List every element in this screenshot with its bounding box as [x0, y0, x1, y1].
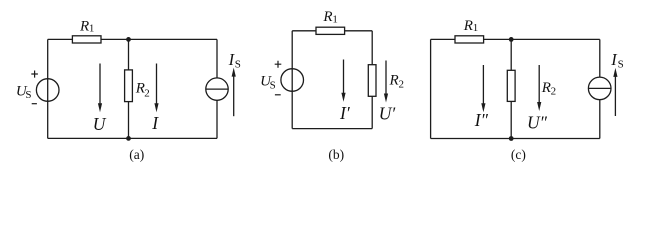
svg-text:1: 1 — [332, 13, 338, 25]
voltage source US (a) — [36, 79, 59, 102]
wire (b) top right segment — [345, 30, 373, 32]
wire (a) right branch upper — [216, 39, 218, 78]
current source IS (a) — [206, 78, 228, 100]
arrow I' (b) — [343, 60, 345, 94]
arrowhead IS (c) — [613, 68, 617, 77]
arrow IS (a) — [233, 76, 235, 116]
arrowhead I' (b) — [341, 93, 345, 102]
wire (a) middle branch lower — [128, 102, 130, 139]
wire (a) left branch — [47, 39, 49, 138]
junction node (a) top — [126, 37, 131, 42]
arrowhead U' (b) — [384, 94, 388, 103]
minus sign of US (a) — [32, 103, 37, 105]
arrow I (a) — [156, 64, 158, 105]
svg-text:S: S — [235, 59, 241, 71]
svg-text:1: 1 — [473, 22, 479, 34]
voltage source US (b) — [281, 69, 304, 92]
arrowhead I'' (c) — [481, 103, 485, 112]
arrow I'' (c) — [482, 65, 484, 105]
svg-text:S: S — [270, 80, 276, 92]
wire (a) middle branch upper — [128, 39, 130, 70]
wire (a) right branch lower — [216, 100, 218, 138]
svg-text:I: I — [151, 113, 159, 133]
junction node (c) top — [509, 37, 514, 42]
svg-text:S: S — [618, 58, 624, 70]
plus sign of US (b) — [275, 61, 282, 68]
svg-text:2: 2 — [399, 79, 405, 91]
svg-text:U′: U′ — [379, 103, 397, 123]
svg-text:(b): (b) — [328, 147, 344, 162]
wire (c) right branch lower — [599, 100, 601, 139]
junction node (c) bottom — [509, 136, 514, 141]
resistor R1 (b) — [316, 27, 345, 34]
svg-text:R: R — [463, 18, 473, 34]
wire (c) bottom — [431, 138, 600, 140]
resistor R2 (a) — [125, 70, 133, 102]
wire (c) middle branch upper — [510, 39, 512, 70]
minus sign of US (b) — [275, 94, 281, 96]
wire (a) top right segment — [101, 38, 217, 40]
junction node (a) bottom — [126, 136, 131, 141]
svg-text:2: 2 — [144, 87, 150, 99]
wire (c) top left segment — [431, 38, 455, 40]
arrowhead U (a) — [98, 103, 102, 112]
svg-text:I″: I″ — [474, 110, 489, 130]
svg-text:I′: I′ — [339, 103, 351, 123]
wire (a) bottom — [48, 137, 217, 139]
wire (b) right branch lower — [371, 96, 373, 128]
svg-text:R: R — [322, 9, 332, 25]
svg-text:(a): (a) — [129, 147, 144, 162]
arrow U' (b) — [385, 61, 387, 95]
resistor R1 (c) — [455, 36, 484, 43]
wire (b) bottom — [292, 128, 372, 130]
resistor R2 (b) — [368, 65, 376, 97]
svg-text:R: R — [389, 73, 399, 89]
wire (b) top left segment — [292, 30, 316, 32]
wire (c) right branch upper — [599, 39, 601, 77]
svg-text:1: 1 — [89, 23, 95, 35]
svg-text:U″: U″ — [527, 113, 548, 133]
current source IS (c) — [588, 77, 611, 100]
wire (c) top right segment — [484, 38, 600, 40]
arrowhead IS (a) — [232, 68, 236, 77]
wire (c) middle branch lower — [510, 101, 512, 138]
arrow U (a) — [99, 64, 101, 105]
wire (b) left branch — [291, 31, 293, 129]
arrow U'' (c) — [538, 65, 540, 103]
arrow IS (c) — [614, 76, 616, 116]
svg-text:U: U — [93, 114, 107, 134]
arrowhead I (a) — [154, 103, 158, 112]
arrowhead U'' (c) — [537, 102, 541, 111]
resistor R2 (c) — [507, 70, 515, 101]
wire (a) top left segment — [48, 38, 73, 40]
svg-text:R: R — [79, 19, 89, 35]
wire (b) right branch upper — [371, 31, 373, 65]
svg-text:S: S — [25, 89, 31, 101]
svg-text:R: R — [541, 80, 551, 96]
resistor R1 (a) — [72, 36, 101, 43]
svg-text:2: 2 — [551, 86, 557, 98]
wire (c) left branch — [430, 39, 432, 138]
svg-text:(c): (c) — [511, 147, 526, 162]
plus sign of US (a) — [31, 71, 38, 78]
